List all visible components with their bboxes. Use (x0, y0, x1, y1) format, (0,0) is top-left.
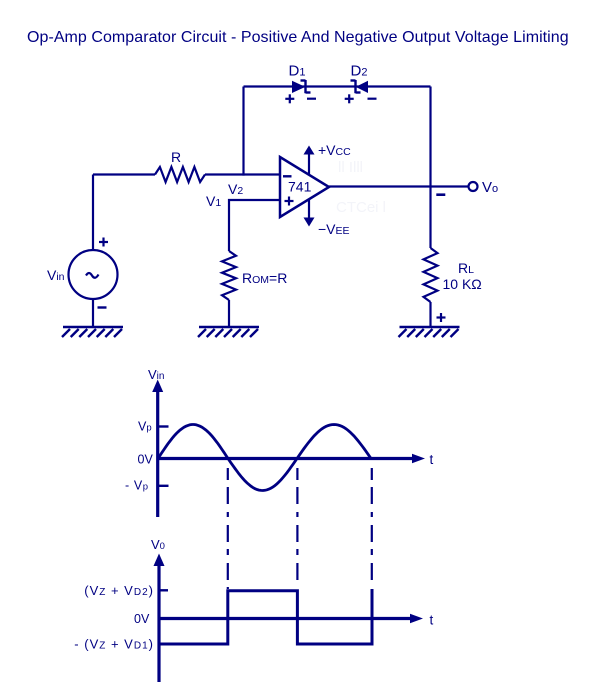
wire: RL top lead (429, 187, 431, 248)
svg-text:−VEE: −VEE (318, 221, 350, 237)
zener diode D2 (345, 63, 377, 104)
+Vcc supply arrow (308, 148, 310, 175)
source Vin circle (69, 250, 118, 299)
svg-text:ll Illl: ll Illl (338, 159, 363, 176)
svg-text:D1: D1 (289, 63, 306, 80)
svg-text:R: R (171, 149, 181, 165)
svg-text:CTCei l: CTCei l (336, 199, 386, 216)
svg-text:0V: 0V (138, 453, 154, 467)
waveform 2: Vo axis (159, 566, 411, 682)
RL polarity plus (437, 313, 446, 322)
wire: feedback right vertical (429, 87, 431, 188)
resistor RL (424, 248, 438, 302)
ground (RL) (399, 327, 460, 337)
wire: RL to ground (429, 302, 431, 327)
svg-text:Vo: Vo (482, 179, 498, 196)
svg-text:10 KΩ: 10 KΩ (443, 276, 482, 292)
svg-text:0V: 0V (134, 612, 150, 626)
svg-text:Vin: Vin (47, 267, 65, 283)
wire: op-amp output (329, 185, 468, 187)
watermark (336, 159, 386, 216)
dashed line 2 (296, 468, 298, 586)
svg-text:D2: D2 (351, 63, 368, 80)
source minus (98, 306, 107, 308)
svg-text:ROM=R: ROM=R (242, 270, 287, 286)
wire: feedback left vertical (242, 87, 244, 176)
source tilde (86, 273, 99, 278)
wire: ROM to ground (228, 300, 230, 327)
source plus (99, 238, 108, 247)
svg-text:741: 741 (288, 179, 312, 195)
resistor ROM (222, 251, 236, 300)
svg-text:Vin: Vin (148, 367, 164, 382)
svg-text:RL: RL (458, 260, 474, 276)
-VEE supply arrow (308, 199, 310, 223)
svg-text:+VCC: +VCC (318, 142, 351, 158)
square wave Vo (159, 589, 372, 644)
wire: Vin top lead (92, 175, 94, 251)
dashed line 3 (371, 468, 373, 586)
wire: feedback top horizontal (244, 85, 431, 87)
wire: input to inverting input (V2 node) (93, 173, 155, 175)
sine wave (158, 425, 371, 491)
wire: R to op-amp inverting input (205, 173, 281, 175)
svg-text:t: t (430, 613, 434, 628)
svg-text:Vp: Vp (138, 420, 152, 434)
svg-text:- Vp: - Vp (125, 479, 149, 493)
svg-text:V1: V1 (206, 193, 221, 209)
waveform 1: Vin axis (158, 391, 413, 517)
dashed line 1 (227, 468, 229, 589)
-Vp tick (159, 485, 169, 487)
ground (ROM) (198, 327, 259, 337)
svg-text:V2: V2 (228, 181, 243, 197)
Vp tick (159, 425, 169, 427)
resistor R (155, 167, 205, 182)
svg-text:(VZ + VD2): (VZ + VD2) (84, 583, 154, 598)
RL polarity minus (436, 193, 445, 196)
svg-text:- (VZ + VD1): - (VZ + VD1) (74, 637, 154, 652)
op-amp U1 741 (280, 142, 351, 237)
svg-text:t: t (430, 452, 434, 467)
wire: Vin bottom lead (92, 299, 94, 327)
wire: non-inverting input V1 (229, 200, 281, 251)
ground (Vin) (62, 327, 123, 337)
zener diode D1 (285, 63, 316, 104)
svg-text:V0: V0 (151, 537, 165, 552)
output terminal Vo (469, 182, 478, 191)
(Vz+VD2) tick (160, 589, 168, 591)
svg-text:Op-Amp Comparator Circuit - Po: Op-Amp Comparator Circuit - Positive And… (27, 29, 569, 46)
